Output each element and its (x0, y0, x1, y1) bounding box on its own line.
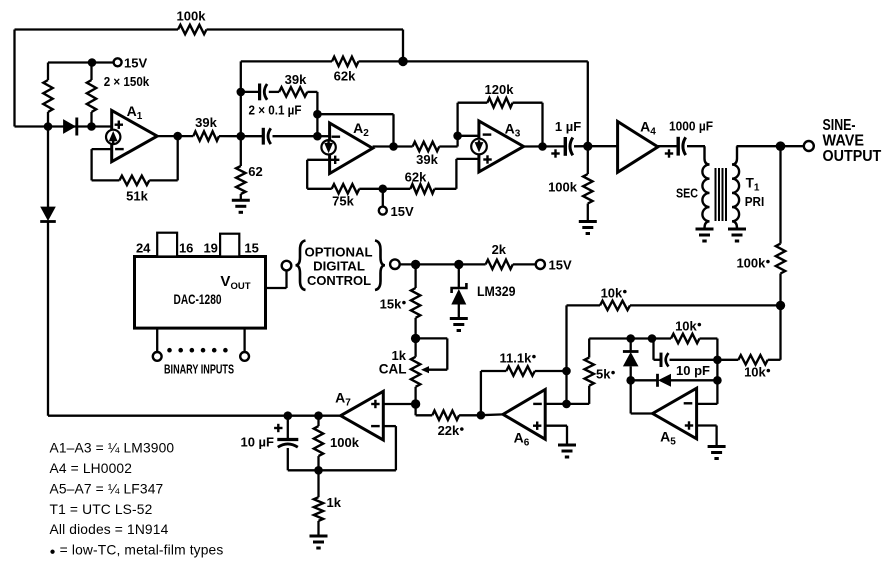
IC DAC-1280 (135, 257, 266, 329)
op-amp A7 (341, 391, 384, 440)
resistor 120k (487, 98, 512, 107)
brace right optional digital control (375, 241, 385, 291)
svg-text:39k: 39k (416, 152, 438, 167)
resistor 62 to ground (236, 166, 245, 194)
svg-text:100k: 100k (330, 435, 360, 450)
svg-text:11.1k●: 11.1k● (500, 351, 537, 366)
op-amp A3 (479, 121, 524, 172)
svg-text:CONTROL: CONTROL (307, 273, 371, 288)
resistor 39k (parallel RC) (269, 91, 279, 93)
svg-text:10 pF: 10 pF (676, 363, 710, 378)
svg-text:15V: 15V (391, 204, 414, 219)
svg-text:24: 24 (136, 241, 151, 256)
node cap network left (237, 132, 246, 141)
resistor 75k (332, 184, 360, 193)
resistor 10k* (A5 feedback) (671, 334, 700, 343)
svg-text:DIGITAL: DIGITAL (313, 259, 365, 274)
node junction left (44, 122, 53, 131)
svg-text:100k: 100k (548, 180, 578, 195)
diode D4 (A5, horizontal) (631, 379, 658, 381)
node diode top (626, 334, 635, 343)
svg-text:T1 = UTC LS-52: T1 = UTC LS-52 (50, 502, 153, 517)
terminal optional control (390, 259, 400, 269)
resistor 39k (A1 to A2) (193, 131, 219, 140)
wire A1 output (157, 135, 193, 137)
ground (1k) (310, 535, 328, 538)
svg-text:15V: 15V (549, 258, 572, 273)
resistor 51k (A1 feedback) (119, 176, 149, 185)
potentiometer 1k CAL (414, 338, 416, 356)
capacitor 0.1uF (upper) (241, 91, 260, 93)
svg-text:1 µF: 1 µF (555, 119, 581, 134)
op-amp A2 (330, 123, 373, 174)
svg-text:62k: 62k (334, 69, 356, 84)
svg-text:SINE-: SINE- (823, 117, 856, 134)
node A3 minus input (453, 132, 462, 141)
diode D1 (series, A1 input) (63, 119, 76, 134)
dotted line binary inputs (167, 348, 172, 353)
diode D2 (to lower rail) (47, 127, 49, 208)
wire primary to output node (737, 145, 781, 147)
wire to A5 minus (716, 380, 718, 404)
svg-text:A4 = LH0002: A4 = LH0002 (50, 461, 133, 476)
ground (A6) (558, 444, 576, 447)
terminal 15V (reference) (536, 260, 545, 269)
ground (LM329) (450, 317, 468, 320)
ground (primary) (728, 228, 746, 231)
wire A5 output (631, 412, 653, 414)
node A2 minus input (313, 132, 322, 141)
node 75k-62k junction (379, 185, 388, 194)
node cap top (648, 334, 657, 343)
wire A2 plus input path (307, 159, 329, 161)
svg-text:62k: 62k (405, 170, 427, 185)
resistor 62k (upper loop) (241, 60, 332, 62)
wire A5 top rail (589, 337, 671, 339)
svg-text:10 µF: 10 µF (240, 435, 274, 450)
svg-text:100k: 100k (177, 9, 207, 24)
resistor 150k-b (90, 63, 92, 81)
node 62k right (398, 57, 408, 67)
capacitor 10pF (652, 339, 654, 360)
resistor 100k (A7 feedback) (317, 416, 319, 426)
wire from top rail down (402, 30, 404, 62)
svg-text:SEC: SEC (676, 186, 698, 201)
svg-text:120k: 120k (485, 82, 515, 97)
resistor 39k (A2 to A3) (413, 142, 440, 151)
diode D3 (A5, vertical) (630, 339, 632, 352)
resistor 100k (top feedback) (178, 25, 207, 34)
resistor 11.1k* (506, 366, 535, 375)
svg-text:15V: 15V (124, 56, 147, 71)
wire top rail left vertical (13, 30, 15, 127)
svg-text:PRI: PRI (745, 195, 765, 209)
resistor 10k* (to output node) (600, 301, 630, 310)
svg-text:BINARY INPUTS: BINARY INPUTS (164, 363, 234, 377)
node 100k top (314, 411, 323, 420)
resistor 100k to ground (587, 146, 589, 174)
wire A6 feedback 11.1k* (480, 371, 482, 415)
svg-text:2 × 0.1 µF: 2 × 0.1 µF (249, 103, 302, 118)
pin binary input right (243, 328, 245, 352)
wire A7 minus feedback (383, 425, 396, 427)
node 11.1k right (562, 367, 571, 376)
node sine output (776, 141, 786, 151)
resistor 100k* (output divider) (779, 146, 781, 243)
svg-text:2k: 2k (492, 242, 507, 257)
wire A3 feedback (456, 103, 458, 136)
op-amp A4 (618, 122, 658, 173)
pin binary input left (156, 328, 158, 352)
terminal 15V (A1 bias) (114, 58, 122, 66)
svg-text:1k: 1k (327, 495, 342, 510)
svg-text:15: 15 (244, 241, 258, 256)
node upper RC left (237, 88, 246, 97)
svg-text:OUTPUT: OUTPUT (823, 148, 882, 165)
wire A7 plus input (383, 403, 415, 405)
svg-text:A1–A3 = ¼ LM3900: A1–A3 = ¼ LM3900 (50, 441, 175, 456)
node feedback bottom (314, 466, 323, 475)
wire top rail (15, 28, 179, 30)
terminal Vout (282, 261, 292, 271)
resistor 15k* (414, 264, 416, 288)
transformer T1 primary winding (732, 146, 739, 228)
node A3 output (538, 142, 547, 151)
wire 62k node to right vertical (403, 60, 588, 62)
pot wiper (416, 337, 448, 339)
ground (A5) (708, 445, 726, 448)
wire A7 to 22k (414, 404, 416, 415)
svg-text:75k: 75k (332, 194, 354, 209)
node A6 output (477, 411, 486, 420)
wire 10k* upper (565, 305, 567, 371)
node A1 output (173, 132, 182, 141)
op-amp A1 (112, 111, 158, 162)
node 100k*-10k* junction (776, 301, 785, 310)
resistor 2k (459, 263, 486, 265)
wire A6 minus input (545, 403, 566, 405)
pin tab 24-16 (157, 233, 177, 257)
svg-text:WAVE: WAVE (823, 133, 865, 150)
capacitor 1000uF (677, 137, 680, 156)
svg-text:51k: 51k (126, 189, 148, 204)
resistor 62k (to A3 plus) (410, 184, 434, 193)
wire 15V supply row (48, 61, 114, 63)
wire A2 output (373, 145, 413, 147)
node LM329 top (454, 260, 463, 269)
node after 1uF (583, 142, 592, 151)
ground (100k) (579, 220, 597, 223)
svg-text:39k: 39k (195, 115, 217, 130)
node at 150k top (88, 58, 97, 67)
svg-text:39k: 39k (285, 72, 307, 87)
svg-text:16: 16 (179, 241, 193, 256)
wire A5 plus to ground (697, 424, 717, 426)
resistor 5k* (585, 358, 594, 386)
svg-text:CAL: CAL (379, 362, 407, 377)
node A6 minus (562, 400, 571, 409)
wire A2 feedback (317, 113, 393, 115)
zener diode LM329 (458, 264, 460, 288)
wire A3 to A4 (588, 145, 618, 147)
wire A1 feedback (92, 148, 112, 150)
node CAL top (411, 334, 420, 343)
svg-text:OPTIONAL: OPTIONAL (305, 244, 373, 259)
transformer core (715, 168, 717, 221)
wire to 5k* (567, 403, 590, 405)
node 10uF top (284, 411, 293, 420)
node 10k*-cap junction (713, 356, 722, 365)
wire reference row (399, 263, 459, 265)
wire left branch vertical (240, 61, 242, 166)
resistor 150k-a (47, 63, 49, 81)
ground (secondary) (696, 228, 714, 231)
wire A6 plus to ground (545, 425, 567, 427)
terminal sine-wave output (804, 141, 814, 151)
svg-text:● = low-TC, metal-film types: ● = low-TC, metal-film types (50, 543, 224, 558)
resistor 1k to ground (317, 470, 319, 497)
node 15k* top (411, 260, 420, 269)
op-amp A6 (503, 390, 545, 440)
wire Vout pin (266, 287, 287, 289)
capacitor 10uF (287, 416, 289, 440)
resistor 22k* (432, 411, 459, 420)
ground (62 resistor) (232, 199, 250, 202)
wire A1 input row (15, 125, 112, 127)
wire output node down (779, 305, 781, 359)
node junction at 150k bottom (87, 122, 96, 131)
node diode right junction (713, 376, 722, 385)
svg-text:All diodes = 1N914: All diodes = 1N914 (50, 522, 169, 537)
wire to output terminal (781, 145, 806, 147)
svg-text:19: 19 (203, 241, 217, 256)
brace left optional digital control (296, 241, 306, 291)
transformer T1 secondary winding (702, 146, 709, 228)
svg-text:DAC-1280: DAC-1280 (174, 292, 222, 307)
terminal 15V (A2 bias) (382, 189, 384, 207)
svg-text:LM329: LM329 (477, 284, 516, 299)
node A2 output (389, 142, 398, 151)
wire A3 output (524, 145, 566, 147)
op-amp A5 (653, 388, 697, 439)
wire lower rail (48, 415, 341, 417)
node A7 plus input (411, 399, 420, 408)
pin tab 19-15 (220, 234, 239, 257)
node A2 feedback tap (313, 110, 322, 119)
svg-text:A5–A7 = ¼ LF347: A5–A7 = ¼ LF347 (50, 482, 164, 497)
svg-text:2 × 150k: 2 × 150k (104, 74, 150, 89)
wire A4 output (658, 145, 678, 147)
node A5 output junction (626, 376, 635, 385)
svg-text:62: 62 (248, 164, 262, 179)
capacitor 1uF (564, 137, 567, 156)
capacitor 0.1uF (lower) (241, 135, 263, 137)
resistor 10k* (lower, to 100k* node) (717, 359, 738, 361)
svg-text:1000 µF: 1000 µF (669, 118, 713, 133)
